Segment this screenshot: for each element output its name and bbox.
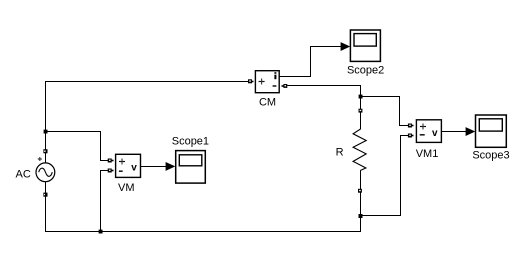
- port R top terminal: [359, 109, 363, 113]
- port VM1 - input pin 2: [408, 134, 414, 138]
- wire R bottom port to node D: [360, 193, 362, 217]
- svg-text:Scope3: Scope3: [472, 150, 509, 162]
- wire node C to VM1 + input: [361, 97, 410, 126]
- junction node A (left rail branch to VM): [44, 130, 48, 134]
- port AC source - terminal: [43, 193, 47, 197]
- wire left vertical from top rail down to AC source top: [45, 81, 47, 163]
- wire CM i output to Scope2: [280, 47, 342, 77]
- wire node C to R top port: [360, 97, 362, 110]
- wire bottom rail: [46, 231, 361, 233]
- arrow into Scope3: [466, 127, 476, 136]
- arrow into Scope2: [341, 42, 351, 51]
- voltage sensor VM: [116, 154, 141, 177]
- svg-text:Scope2: Scope2: [347, 65, 384, 77]
- svg-text:v: v: [432, 128, 438, 139]
- AC voltage source: [36, 163, 55, 182]
- arrow into Scope1: [166, 162, 176, 171]
- svg-text:CM: CM: [259, 97, 276, 109]
- voltage sensor VM1: [416, 120, 441, 143]
- wire node D down to bottom rail: [360, 216, 362, 232]
- current sensor CM: [255, 71, 279, 93]
- svg-text:AC: AC: [16, 169, 31, 181]
- wire CM - terminal to node C: [287, 86, 360, 97]
- port VM1 + input pin 1: [408, 124, 414, 128]
- scope block Scope3: [476, 115, 507, 147]
- port R bottom terminal: [358, 189, 362, 193]
- junction node D (R bottom branch): [359, 214, 363, 218]
- wire from bottom rail up to VM - input: [101, 171, 110, 232]
- port VM - input pin 2: [108, 169, 114, 173]
- scope block Scope1: [176, 151, 206, 184]
- scope block Scope2: [350, 30, 380, 61]
- port AC source + terminal: [43, 149, 47, 153]
- junction node C (top of R branch to VM1 +): [359, 95, 363, 99]
- wire branch from node A to VM + input: [46, 132, 110, 161]
- svg-text:v: v: [131, 162, 137, 173]
- polarity + mark of AC source: [38, 157, 42, 161]
- svg-text:VM1: VM1: [416, 148, 439, 160]
- wire node D to VM1 - input: [361, 136, 410, 216]
- svg-text:VM: VM: [118, 182, 135, 194]
- wire AC source bottom lead down to bottom rail: [45, 182, 47, 232]
- junction node B (bottom rail to VM -): [99, 230, 103, 234]
- port CM - terminal: [282, 84, 288, 88]
- wire VM output to Scope1: [141, 166, 167, 168]
- port VM + input pin 1: [108, 159, 114, 163]
- svg-text:R: R: [336, 146, 344, 158]
- port CM + input: [248, 79, 253, 83]
- wire VM1 output to Scope3: [442, 131, 467, 133]
- wire top rail from AC node to CM + input: [46, 81, 254, 83]
- svg-text:Scope1: Scope1: [172, 135, 209, 147]
- resistor R: [353, 113, 366, 190]
